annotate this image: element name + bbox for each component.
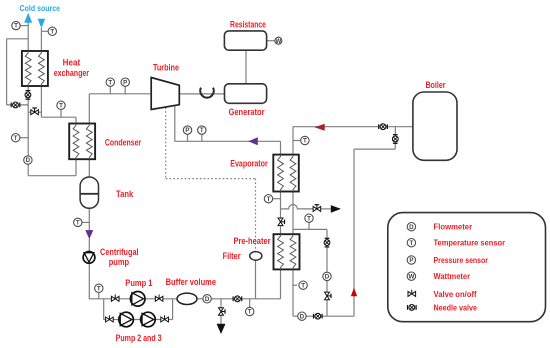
svg-text:Evaporator: Evaporator [230, 159, 268, 169]
svg-text:T: T [301, 282, 305, 289]
svg-text:Condenser: Condenser [105, 138, 142, 148]
svg-text:Heat: Heat [63, 58, 81, 68]
svg-text:T: T [248, 309, 252, 316]
svg-text:T: T [14, 135, 18, 142]
svg-text:D: D [409, 224, 414, 231]
svg-text:T: T [97, 285, 101, 292]
svg-text:Valve on/off: Valve on/off [434, 290, 477, 299]
svg-text:P: P [409, 257, 413, 264]
svg-text:Wattmeter: Wattmeter [434, 272, 471, 281]
svg-text:T: T [76, 220, 80, 227]
svg-text:D: D [325, 274, 330, 281]
svg-text:T: T [410, 240, 414, 247]
svg-text:exchanger: exchanger [54, 68, 90, 78]
svg-text:T: T [200, 127, 204, 134]
svg-text:Resistance: Resistance [230, 19, 266, 29]
svg-text:Pump 1: Pump 1 [125, 278, 152, 288]
svg-text:T: T [108, 79, 112, 86]
svg-text:Temperature sensor: Temperature sensor [434, 239, 506, 248]
svg-text:P: P [185, 127, 189, 134]
svg-text:Buffer volume: Buffer volume [166, 277, 216, 287]
svg-text:Boiler: Boiler [425, 80, 445, 90]
svg-text:T: T [50, 28, 54, 35]
svg-text:Filter: Filter [223, 251, 241, 261]
svg-text:T: T [307, 215, 311, 222]
svg-text:Pre-heater: Pre-heater [233, 236, 271, 246]
svg-text:Cold source: Cold source [20, 4, 61, 13]
svg-text:T: T [59, 102, 63, 109]
svg-text:P: P [123, 79, 127, 86]
svg-text:pump: pump [109, 257, 130, 267]
svg-text:Generator: Generator [229, 107, 265, 117]
svg-text:D: D [205, 296, 210, 303]
svg-text:W: W [275, 38, 281, 45]
svg-text:Tank: Tank [116, 189, 134, 199]
svg-text:Pressure sensor: Pressure sensor [434, 256, 489, 265]
svg-text:T: T [14, 23, 18, 30]
svg-text:Turbine: Turbine [153, 63, 179, 73]
svg-text:Needle valve: Needle valve [434, 303, 478, 312]
svg-text:T: T [303, 138, 307, 145]
svg-text:Pump 2 and 3: Pump 2 and 3 [116, 333, 162, 343]
svg-text:Flowmeter: Flowmeter [434, 223, 473, 232]
svg-text:Centrifugal: Centrifugal [100, 247, 139, 257]
svg-text:D: D [300, 313, 305, 320]
svg-text:T: T [267, 196, 271, 203]
svg-text:W: W [408, 273, 414, 280]
svg-text:D: D [26, 157, 31, 164]
